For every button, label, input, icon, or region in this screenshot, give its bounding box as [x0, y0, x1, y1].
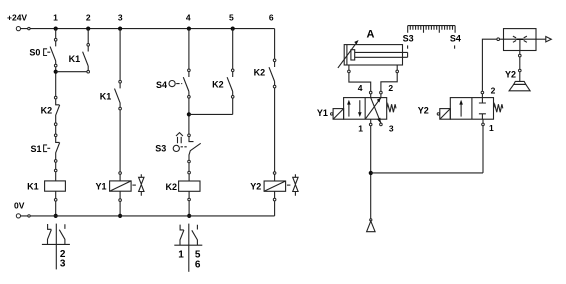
wire rail to S0 [55, 29, 57, 39]
cylinder port stubs and pins [348, 65, 399, 73]
relay coil K1 [27, 169, 65, 201]
wire Y2 coil to 0V corner [274, 201, 276, 216]
svg-text:3: 3 [118, 13, 123, 23]
solenoid coil Y1 [95, 172, 131, 202]
distance ruler S3-S4 [403, 26, 461, 44]
svg-text:4: 4 [358, 83, 363, 93]
valve V1 right position crossed arrows [365, 98, 381, 124]
valve link icon Y2 [287, 174, 298, 196]
wire Y1 coil to 0V [119, 201, 121, 216]
solenoid Y2 of valve V2 [418, 106, 451, 120]
wire K2 col5 down to junction [232, 98, 234, 114]
relay coil K2 [165, 171, 200, 201]
wire rail to K2 contact col5 [232, 29, 234, 69]
relay K2 contact map [174, 224, 202, 272]
4/2-way valve V1 body [344, 98, 387, 120]
wire S4 to S3 [188, 98, 190, 134]
valve V1 port 2 pin [380, 91, 383, 97]
node supply junction [369, 171, 373, 175]
valve V1 port 1 pin [369, 119, 372, 126]
svg-text:4: 4 [186, 13, 191, 23]
svg-text:1: 1 [489, 123, 494, 133]
valve V1 return spring [387, 104, 396, 112]
svg-text:S4: S4 [156, 80, 167, 90]
svg-text:S1: S1 [30, 144, 41, 154]
relay contact K2 (NC, rung 1) [41, 96, 60, 125]
vacuum generator inlet pin [497, 38, 500, 41]
wire K2 col6 to Y2 coil [274, 88, 276, 172]
valve V2 port labels [489, 85, 496, 133]
node 0V junction col4 [187, 214, 191, 218]
vacuum port pins [519, 51, 522, 82]
svg-text:K2: K2 [41, 106, 53, 116]
actuated indicator arrow S3 [176, 133, 183, 144]
wire K1 coil to 0V [55, 201, 57, 216]
svg-text:3: 3 [389, 124, 394, 134]
node junction S0/K1 [54, 70, 58, 74]
svg-text:K1: K1 [100, 92, 112, 102]
svg-text:2: 2 [388, 83, 393, 93]
wire K2 to S1 [55, 126, 57, 135]
svg-text:K1: K1 [69, 54, 81, 64]
adjustable cushioning arrow [338, 40, 359, 68]
pushbutton S0 (NO) [29, 38, 57, 66]
wire rail corner to K2 contact col6 [274, 29, 276, 59]
svg-text:+24V: +24V [7, 13, 27, 23]
limit switch S3 (NO, shown actuated/closed) [155, 134, 200, 163]
svg-text:Y2: Y2 [418, 106, 429, 116]
3/2-way valve V2 body [450, 98, 493, 120]
wire junction to K2 contact col5 [189, 113, 233, 115]
suction cup [509, 81, 530, 90]
svg-text:S3: S3 [403, 33, 414, 43]
svg-text:6: 6 [269, 13, 274, 23]
wire S1 to K1 coil [55, 162, 57, 169]
node rail junction col4 [187, 27, 191, 31]
valve V1 port labels [358, 83, 394, 134]
tube cylinder left port to valve port 4 [349, 73, 371, 92]
svg-text:2: 2 [86, 13, 91, 23]
svg-text:1: 1 [178, 250, 184, 261]
compressed air source [367, 219, 376, 232]
supply line valve V1 port1 down [370, 126, 372, 219]
svg-text:0V: 0V [14, 201, 25, 211]
tube valve V2 port 2 to vacuum generator [482, 39, 497, 91]
svg-text:S4: S4 [450, 33, 461, 43]
wire S0 to K2 [55, 67, 57, 96]
valve V2 right position blocked ports [479, 98, 486, 120]
tube cylinder right port to valve port 2 [381, 73, 397, 92]
+24V supply rail [7, 13, 275, 31]
solenoid Y1 of valve V1 [317, 108, 344, 119]
svg-text:K1: K1 [27, 182, 39, 192]
solenoid coil Y2 [250, 172, 285, 201]
position mark S3 [407, 45, 409, 48]
wire K2 coil to 0V [188, 201, 190, 216]
node rail junction col5 [231, 27, 235, 31]
position mark S4 [454, 45, 456, 48]
valve V2 port 2 pin [481, 91, 484, 97]
svg-text:K2: K2 [212, 79, 224, 89]
svg-text:2: 2 [491, 85, 496, 95]
node 0V junction col1 [54, 214, 58, 218]
svg-text:Y1: Y1 [95, 181, 106, 191]
svg-text:S0: S0 [29, 48, 40, 58]
valve V2 return spring [494, 104, 503, 112]
svg-text:Y1: Y1 [317, 108, 328, 118]
vacuum generator (venturi) [504, 29, 537, 51]
valve V1 port 4 pin [369, 91, 372, 97]
relay contact K2 (NO, rung 6) [254, 59, 276, 88]
wire pin to generator [500, 38, 504, 40]
svg-text:S3: S3 [155, 144, 166, 154]
relay contact K1 (NO, rung 3) [100, 80, 122, 110]
wire junction to K1 contact [56, 71, 87, 73]
svg-text:K2: K2 [165, 182, 177, 192]
node junction S4/K2 [187, 112, 191, 116]
valve V2 left position arrow [459, 100, 463, 117]
relay contact K1 (NO, rung 2) [69, 44, 90, 73]
exhaust outlet triangle [536, 37, 551, 42]
relay K1 contact map [42, 224, 70, 270]
valve V2 port 1 pin [482, 119, 485, 126]
node rail junction col2 [86, 27, 90, 31]
svg-text:1: 1 [53, 13, 58, 23]
node rail junction col3 [118, 27, 122, 31]
0V supply rail [14, 201, 275, 218]
limit switch S4 (NO) [156, 69, 190, 98]
wire rail to K1 contact col3 [119, 29, 121, 81]
relay contact K2 (NO, rung 5) [212, 69, 234, 98]
valve link icon Y1 [132, 174, 144, 196]
svg-text:1: 1 [358, 123, 363, 133]
valve V1 left position arrows [347, 100, 362, 117]
svg-text:3: 3 [60, 258, 66, 269]
node rail junction col1 [54, 27, 58, 31]
cylinder A (double acting) [344, 29, 407, 65]
wire rail to K1 contact col2 [87, 29, 89, 44]
wire K1 contact to Y1 coil [119, 110, 121, 172]
wire rail to S4 [188, 29, 190, 69]
svg-text:5: 5 [229, 13, 234, 23]
svg-text:6: 6 [195, 260, 201, 271]
svg-text:Y2: Y2 [250, 181, 261, 191]
svg-text:A: A [367, 29, 375, 41]
valve V1 port 3 pin (exhaust) [380, 123, 383, 126]
svg-text:Y2: Y2 [505, 70, 516, 80]
pushbutton S1 (NC) [30, 134, 59, 162]
svg-text:K2: K2 [254, 67, 266, 77]
supply line junction to valve V2 [371, 126, 483, 173]
node 0V junction col3 [118, 214, 122, 218]
wire S3 to K2 coil [188, 163, 190, 172]
